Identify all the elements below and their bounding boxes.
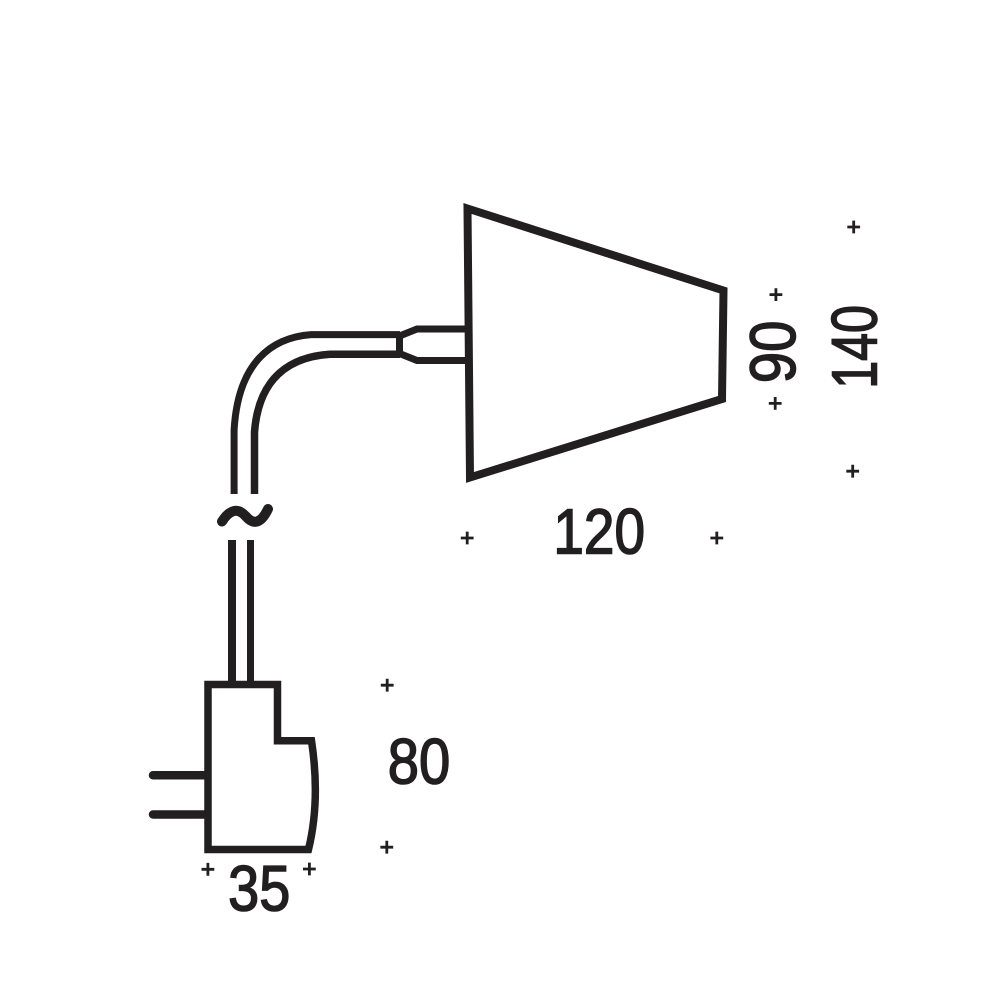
plus mark 6 <box>710 532 723 545</box>
svg-text:140: 140 <box>820 305 891 389</box>
plus mark 1 <box>847 221 860 234</box>
svg-text:35: 35 <box>228 853 290 924</box>
plus mark 2 <box>770 288 783 301</box>
flexible arm lower tube left line <box>228 540 236 688</box>
svg-text:120: 120 <box>553 495 645 567</box>
plug body <box>208 685 315 850</box>
plus mark 7 <box>381 679 394 692</box>
lampshade <box>468 209 724 478</box>
flexible arm upper tube outer line <box>234 335 400 494</box>
plus mark 9 <box>202 863 215 876</box>
plug prong lower <box>153 810 206 819</box>
flexible arm upper tube inner line <box>255 354 401 494</box>
plus mark 5 <box>461 532 474 545</box>
svg-text:90: 90 <box>736 321 808 384</box>
plus mark 8 <box>380 841 393 854</box>
flexible arm lower tube right line <box>247 540 254 688</box>
plus mark 3 <box>769 397 782 410</box>
plus mark 10 <box>303 863 316 876</box>
plug prong upper <box>153 771 206 780</box>
plus mark 4 <box>846 465 859 478</box>
nozzle connector <box>400 329 469 361</box>
svg-text:80: 80 <box>388 726 450 797</box>
break squiggle <box>222 509 268 522</box>
